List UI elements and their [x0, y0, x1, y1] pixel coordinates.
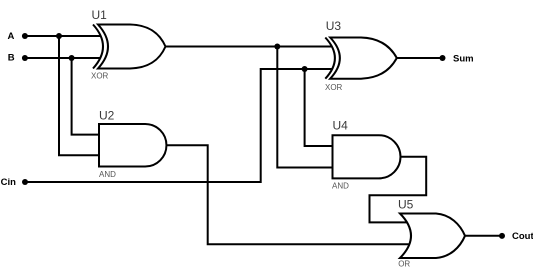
svg-text:AND: AND — [99, 170, 116, 179]
svg-text:U3: U3 — [326, 19, 342, 33]
svg-text:OR: OR — [398, 260, 410, 269]
svg-text:Cin: Cin — [1, 177, 17, 188]
svg-text:U2: U2 — [99, 109, 115, 123]
svg-text:U4: U4 — [333, 119, 349, 133]
svg-text:A: A — [8, 31, 15, 42]
svg-text:U1: U1 — [92, 8, 108, 22]
svg-text:B: B — [8, 53, 15, 64]
svg-text:AND: AND — [332, 181, 349, 190]
svg-text:Cout: Cout — [512, 231, 533, 242]
svg-text:Sum: Sum — [453, 53, 474, 64]
svg-text:XOR: XOR — [325, 83, 343, 92]
svg-text:XOR: XOR — [91, 72, 109, 81]
svg-text:U5: U5 — [398, 198, 414, 212]
